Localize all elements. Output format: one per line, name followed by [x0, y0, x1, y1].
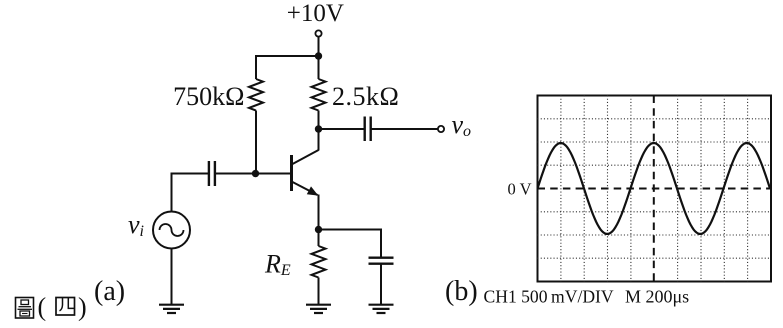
capacitor Cout	[365, 117, 371, 142]
resistor R1 750k	[249, 79, 263, 111]
wire emitter node to bypass cap	[319, 230, 382, 258]
ground G3	[369, 305, 394, 313]
junction emitter node	[315, 226, 322, 233]
svg-text:RE: RE	[264, 250, 291, 279]
scope center vertical dashed	[653, 96, 655, 282]
wire collector node to Cout	[319, 128, 365, 130]
scope 0V dashed line	[538, 188, 772, 190]
capacitor CE bypass	[369, 258, 394, 264]
scope grid dotted	[538, 96, 772, 282]
svg-text:): )	[78, 293, 87, 322]
node VCC terminal	[315, 30, 321, 36]
svg-text:(b): (b)	[445, 276, 478, 307]
transistor Q1	[292, 129, 319, 196]
capacitor Cin	[209, 161, 215, 186]
wire vi source to Cin	[172, 174, 209, 212]
resistor R2 2.5k	[312, 79, 326, 111]
wire top rail	[256, 55, 319, 57]
resistor RE	[312, 246, 326, 278]
wire rail to R2	[318, 56, 320, 79]
caption si (hanzi)	[56, 298, 75, 316]
wire base	[256, 173, 291, 175]
svg-text:(: (	[38, 293, 47, 322]
wire rail to R1	[255, 55, 257, 79]
wire R2 to collector node	[318, 111, 320, 130]
svg-text:750kΩ: 750kΩ	[173, 82, 244, 111]
svg-text:+10V: +10V	[287, 0, 344, 27]
wire Cout to vo terminal	[371, 128, 438, 130]
wire emitter down	[318, 195, 320, 230]
wire R1 to base node	[255, 111, 257, 174]
svg-text:2.5kΩ: 2.5kΩ	[332, 82, 399, 111]
oscilloscope screen border	[538, 96, 772, 282]
node vo terminal	[438, 126, 444, 132]
ground G2	[306, 305, 331, 313]
wire VCC terminal to rail	[318, 37, 320, 56]
svg-text:(a): (a)	[94, 276, 125, 307]
svg-text:CH1 500 mV/DIV: CH1 500 mV/DIV	[484, 287, 614, 307]
wire input cap to base node	[215, 173, 256, 175]
junction VCC rail	[315, 52, 322, 59]
source Vi	[153, 212, 190, 249]
wire vi to ground	[171, 249, 173, 305]
junction collector node	[315, 125, 322, 132]
svg-text:vi: vi	[128, 210, 144, 240]
svg-text:vo: vo	[452, 110, 472, 140]
wire emitter node to RE	[318, 230, 320, 247]
caption tu (hanzi)	[16, 298, 34, 319]
sine symbol	[160, 224, 184, 236]
svg-text:M 200μs: M 200μs	[625, 287, 689, 307]
wire RE to ground	[318, 278, 320, 305]
svg-text:0 V: 0 V	[508, 180, 532, 199]
ground G1	[159, 305, 184, 313]
junction base node	[252, 170, 259, 177]
scope waveform	[538, 143, 771, 234]
wire CE to ground	[380, 264, 382, 304]
